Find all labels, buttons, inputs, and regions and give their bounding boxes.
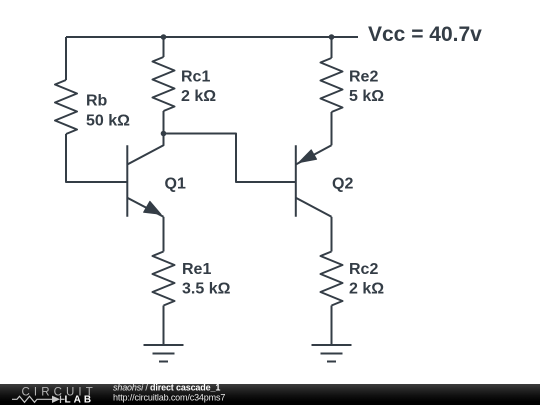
footer bar xyxy=(0,384,540,405)
ground right xyxy=(312,345,352,362)
ground left xyxy=(144,345,184,362)
svg-text:Rc1: Rc1 xyxy=(181,68,210,85)
svg-text:Vcc = 40.7v: Vcc = 40.7v xyxy=(368,23,482,46)
svg-text:5 kΩ: 5 kΩ xyxy=(349,88,384,105)
wire Rc1 top lead xyxy=(163,37,165,57)
transistor Q1 xyxy=(127,134,163,217)
wire Rb bottom to Q1 base xyxy=(66,134,127,182)
resistor Re1 xyxy=(153,252,175,306)
svg-text:2 kΩ: 2 kΩ xyxy=(181,88,216,105)
resistor Rc2 xyxy=(321,252,343,306)
wire Re2 top lead xyxy=(331,37,333,58)
wire Q1 emitter to Re1 xyxy=(163,217,165,252)
wire Re2 bottom lead xyxy=(331,112,333,145)
transistor Q2 xyxy=(296,145,332,217)
svg-text:Re2: Re2 xyxy=(349,68,378,85)
wire Rc1 bottom lead xyxy=(163,111,165,134)
node junction dot Re2/Vcc xyxy=(329,34,335,40)
svg-text:LAB: LAB xyxy=(65,395,95,405)
resistor Re2 xyxy=(321,58,343,112)
node junction dot Rc1/Vcc xyxy=(161,34,167,40)
svg-text:Rb: Rb xyxy=(86,93,108,110)
svg-text:Re1: Re1 xyxy=(182,261,211,278)
logo diode triangle xyxy=(52,396,60,403)
svg-text:3.5 kΩ: 3.5 kΩ xyxy=(182,281,231,298)
wire Rc2 to ground xyxy=(331,306,333,346)
wire Re1 to ground xyxy=(163,306,165,346)
wire Q2 collector to Rc2 xyxy=(331,217,333,252)
svg-text:Q1: Q1 xyxy=(165,175,186,192)
svg-text:Q2: Q2 xyxy=(332,175,353,192)
resistor Rc1 xyxy=(153,57,175,111)
svg-text:2 kΩ: 2 kΩ xyxy=(349,281,384,298)
wire Rb top lead xyxy=(65,37,67,80)
svg-text:http://circuitlab.com/c34pms7: http://circuitlab.com/c34pms7 xyxy=(113,392,225,402)
resistor Rb xyxy=(55,80,77,134)
svg-text:shaohsi / direct cascade_1: shaohsi / direct cascade_1 xyxy=(113,384,220,392)
svg-text:50 kΩ: 50 kΩ xyxy=(86,113,130,130)
node junction dot Rc1/Q1 collector xyxy=(161,131,167,137)
wire Q1 collector to Q2 base xyxy=(164,134,296,183)
svg-text:Rc2: Rc2 xyxy=(349,261,378,278)
logo resistor-diode glyph xyxy=(12,396,65,403)
wire top rail Vcc xyxy=(66,36,358,38)
